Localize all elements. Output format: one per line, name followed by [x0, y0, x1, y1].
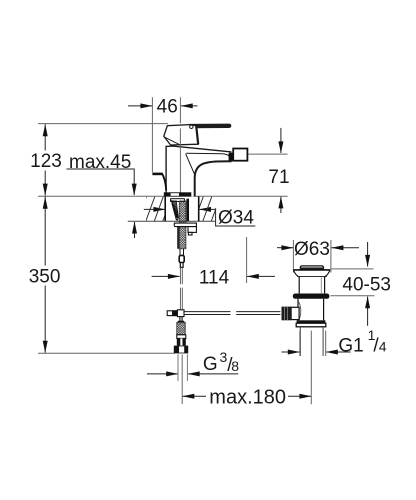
deck top line already drawn; deck bottom line	[128, 220, 216, 222]
G3/8 pipe	[177, 354, 179, 381]
svg-text:Ø34: Ø34	[218, 208, 254, 229]
dark section	[177, 338, 186, 345]
svg-text:123: 123	[30, 151, 62, 172]
white collar	[177, 335, 186, 339]
shank top cap	[171, 199, 185, 202]
ext line 40-53 top	[331, 268, 373, 270]
svg-text:114: 114	[199, 267, 230, 288]
funnel cone	[172, 200, 178, 218]
flange top	[293, 269, 330, 271]
braided hose upper	[179, 201, 186, 249]
svg-text:3: 3	[220, 349, 228, 365]
pull rod hook	[152, 173, 162, 176]
tailpipe walls	[299, 327, 301, 356]
lower body	[297, 299, 299, 321]
handle base	[164, 125, 198, 145]
gasket ring	[293, 294, 330, 299]
braided section	[177, 322, 185, 334]
svg-text:8: 8	[231, 358, 239, 374]
threaded rod (black)	[186, 199, 189, 222]
base gasket	[164, 192, 192, 196]
svg-text:G1: G1	[338, 336, 363, 357]
bottom flange	[297, 320, 326, 323]
ext line deck top level (left and right of deck)	[38, 195, 288, 197]
svg-text:40-53: 40-53	[342, 274, 391, 295]
svg-text:46: 46	[157, 97, 178, 118]
svg-text:350: 350	[29, 267, 61, 288]
ext line top (handle top level)	[38, 123, 168, 125]
ext line 350 bottom	[38, 352, 175, 354]
upper body	[298, 277, 300, 294]
thin hose line down to tee	[180, 267, 182, 284]
spout underside	[195, 161, 232, 196]
aerator tip	[229, 153, 234, 162]
ext line 114 right (true drain position)	[246, 237, 248, 283]
horseshoe washer	[174, 223, 196, 227]
tee coupling	[167, 311, 172, 316]
big nut	[174, 346, 188, 354]
ext line 46 right / faucet centre	[179, 97, 181, 123]
ext line 40-53 bottom	[331, 295, 375, 297]
centre ext line over body	[179, 128, 181, 196]
plug cap	[300, 266, 323, 270]
svg-text:4: 4	[379, 339, 387, 355]
pull rod (broken)	[184, 311, 230, 313]
svg-text:Ø63: Ø63	[294, 239, 330, 260]
spout inner top line	[186, 153, 232, 159]
hole edges	[164, 197, 166, 222]
body + spout outline	[166, 146, 231, 192]
ext lines O63	[292, 240, 294, 273]
svg-text:max.180: max.180	[209, 387, 286, 409]
crease	[186, 154, 196, 176]
ext line 46 left	[151, 97, 153, 172]
hose lower tube	[180, 249, 184, 256]
svg-text:71: 71	[268, 167, 289, 188]
handle lever	[189, 124, 231, 129]
hose end fitting	[179, 255, 184, 262]
hose dark left edge below deck	[177, 227, 179, 249]
svg-text:G: G	[203, 354, 218, 375]
ext line max180 left	[181, 355, 183, 405]
nut bracket	[188, 227, 196, 233]
faucet silhouette fill	[166, 146, 232, 196]
svg-text:max.45: max.45	[69, 152, 131, 173]
nipple	[180, 317, 182, 321]
side knob	[291, 307, 299, 319]
drain centre line	[310, 331, 312, 405]
ext line spout outlet	[248, 153, 288, 155]
